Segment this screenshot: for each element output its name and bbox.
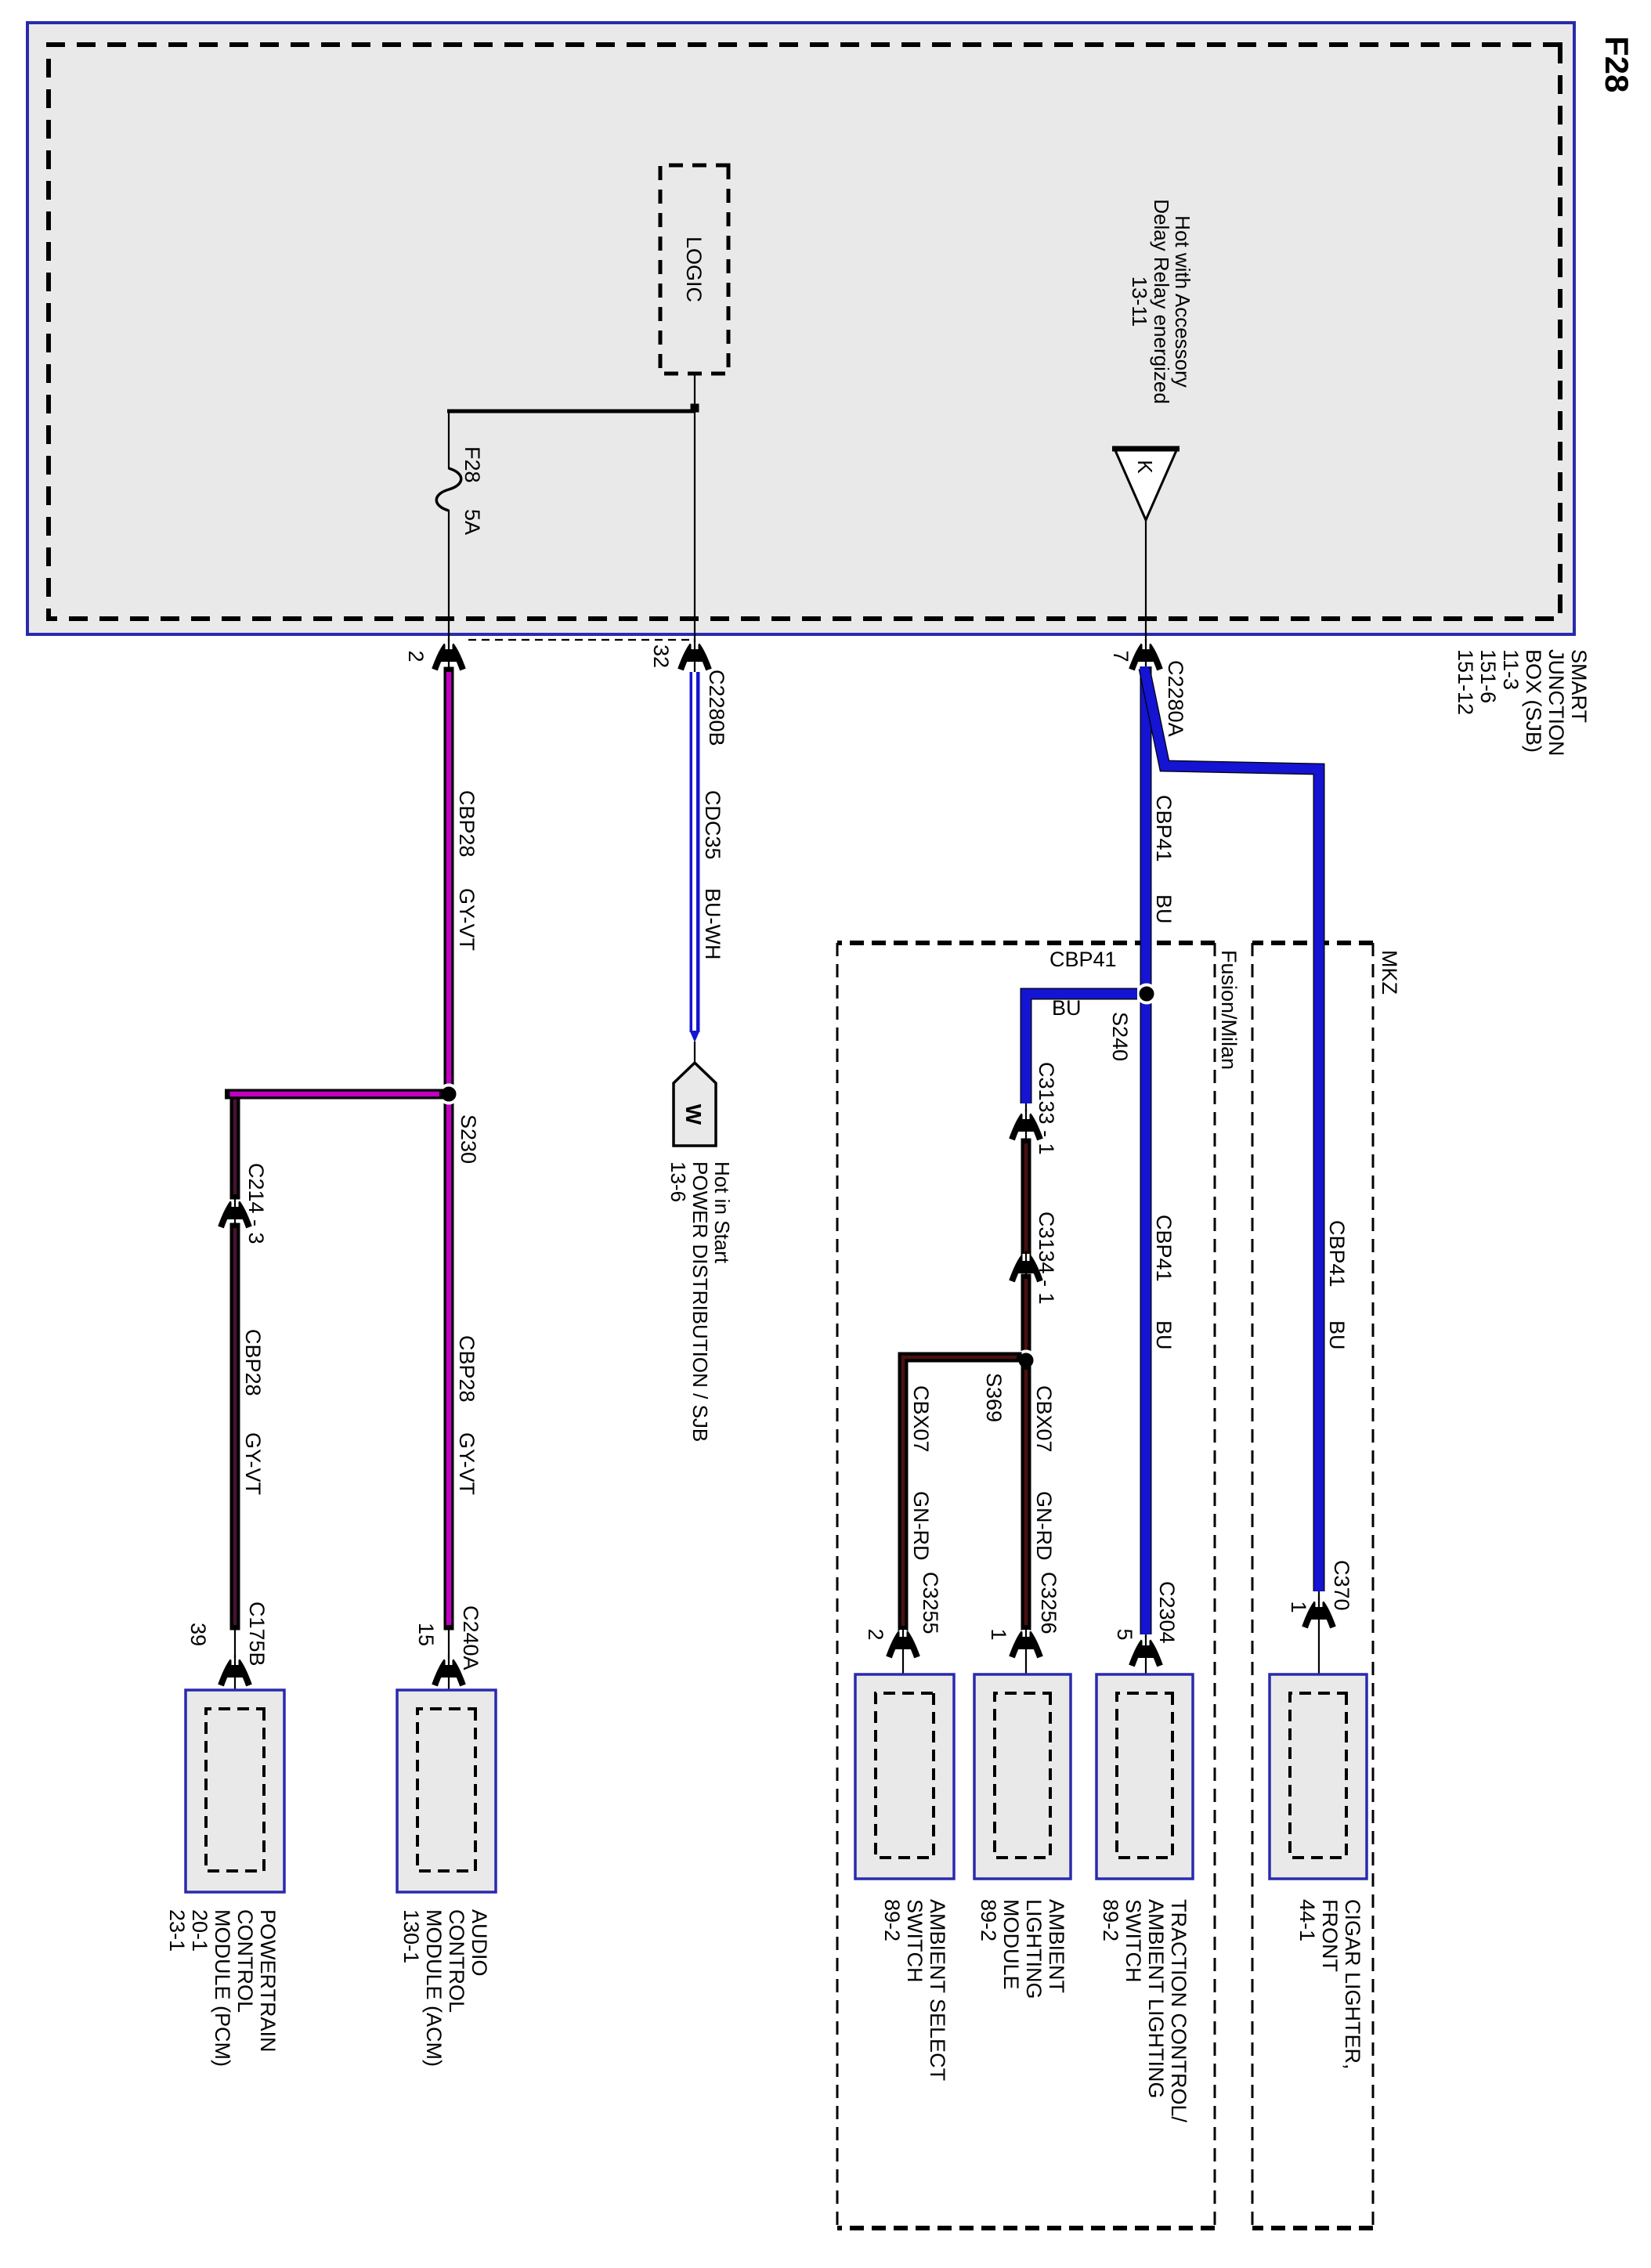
wire CBX07 GN-RD branch S369 to C3255	[903, 1357, 1017, 1626]
wire CDC35 BU-WH	[690, 672, 725, 1064]
svg-text:MODULE: MODULE	[999, 1899, 1023, 1990]
svg-text:AMBIENT SELECT: AMBIENT SELECT	[926, 1899, 949, 2081]
connector C2280B label	[705, 670, 728, 746]
SJB name label	[1454, 649, 1591, 757]
svg-text:39: 39	[186, 1623, 210, 1646]
inline connector C3133-1	[1012, 1062, 1058, 1155]
svg-text:S230: S230	[457, 1114, 480, 1164]
svg-text:C240A: C240A	[459, 1605, 482, 1670]
splice S230	[440, 1085, 481, 1165]
svg-text:TRACTION CONTROL/: TRACTION CONTROL/	[1167, 1899, 1190, 2123]
svg-text:CONTROL: CONTROL	[233, 1909, 257, 2013]
svg-text:AUDIO: AUDIO	[468, 1909, 491, 1977]
svg-text:2: 2	[864, 1628, 887, 1640]
svg-text:C2280A: C2280A	[1164, 660, 1187, 737]
svg-text:C3134 - 1: C3134 - 1	[1035, 1212, 1058, 1305]
wire CBP28 branch S230 down	[230, 1094, 440, 1194]
node junction at logic output	[691, 404, 699, 413]
svg-text:151-12: 151-12	[1454, 649, 1477, 715]
svg-text:11-3: 11-3	[1499, 649, 1523, 690]
svg-text:Delay Relay energized: Delay Relay energized	[1150, 199, 1173, 404]
fuse F28 5A	[436, 446, 484, 535]
svg-text:Hot with Accessory: Hot with Accessory	[1171, 215, 1194, 388]
wire CBP28 GY-VT to C175B	[235, 1228, 265, 1625]
svg-text:CBP28: CBP28	[455, 790, 479, 858]
svg-text:13-6: 13-6	[667, 1161, 690, 1202]
splice S240	[1108, 985, 1156, 1062]
svg-text:SWITCH: SWITCH	[903, 1899, 927, 1982]
svg-text:CBX07: CBX07	[1032, 1385, 1056, 1453]
svg-text:BU: BU	[1052, 996, 1082, 1020]
wire CBX07 GN-RD S369 to C3256	[1026, 1370, 1056, 1625]
svg-text:13-11: 13-11	[1128, 276, 1151, 327]
pin 32 C2280B	[649, 639, 709, 670]
svg-text:BU: BU	[1152, 1320, 1176, 1350]
svg-text:CONTROL: CONTROL	[445, 1909, 468, 2013]
svg-text:CBP28: CBP28	[241, 1329, 265, 1396]
wire CBX07 segment 1	[1021, 1143, 1031, 1253]
wire CBP41 BU branch S240 down	[1026, 948, 1137, 1103]
svg-text:GY-VT: GY-VT	[241, 1432, 265, 1495]
svg-text:44-1: 44-1	[1295, 1899, 1319, 1941]
connector C370 pin 1	[1287, 1560, 1353, 1693]
svg-text:POWER DISTRIBUTION / SJB: POWER DISTRIBUTION / SJB	[688, 1161, 712, 1442]
svg-text:F28: F28	[461, 446, 484, 483]
svg-text:BU: BU	[1325, 1320, 1349, 1350]
connector C2304 pin 5	[1113, 1581, 1179, 1693]
splice S369	[982, 1352, 1035, 1423]
svg-text:Fusion/Milan: Fusion/Milan	[1217, 950, 1241, 1070]
svg-text:LOGIC: LOGIC	[682, 237, 706, 302]
wire CBP41 BU branch to cigar lighter	[1144, 668, 1349, 1591]
note hot in start power distribution	[667, 1161, 734, 1442]
svg-text:2: 2	[404, 650, 428, 662]
svg-text:C3255: C3255	[919, 1572, 942, 1634]
svg-text:7: 7	[1109, 650, 1133, 662]
svg-text:C3256: C3256	[1037, 1572, 1060, 1634]
svg-text:CIGAR LIGHTER,: CIGAR LIGHTER,	[1341, 1899, 1364, 2070]
svg-text:MODULE (PCM): MODULE (PCM)	[211, 1909, 234, 2067]
svg-text:C2280B: C2280B	[705, 670, 728, 746]
svg-text:130-1: 130-1	[399, 1909, 423, 1963]
svg-text:F28: F28	[1599, 36, 1635, 92]
svg-text:K: K	[1133, 460, 1157, 474]
svg-text:S369: S369	[982, 1373, 1006, 1422]
svg-text:1: 1	[1287, 1601, 1310, 1613]
wire CBP28 GY-VT pin2 to S230 to C240A	[449, 672, 479, 1625]
svg-text:GN-RD: GN-RD	[909, 1491, 933, 1561]
wire thick feed to fuse	[447, 410, 695, 414]
pin 2 C2280B	[404, 639, 463, 670]
svg-text:20-1: 20-1	[188, 1909, 211, 1952]
svg-text:CBX07: CBX07	[909, 1385, 933, 1453]
svg-text:AMBIENT LIGHTING: AMBIENT LIGHTING	[1144, 1899, 1168, 2099]
title F28	[1599, 36, 1635, 92]
svg-text:JUNCTION: JUNCTION	[1544, 649, 1568, 757]
off-page connector W power distribution	[674, 1063, 716, 1146]
svg-text:5: 5	[1113, 1628, 1136, 1640]
svg-text:15: 15	[414, 1623, 438, 1646]
connector C3255 pin 2	[864, 1572, 942, 1693]
svg-text:151-6: 151-6	[1476, 649, 1500, 703]
svg-text:5A: 5A	[461, 509, 484, 535]
svg-text:C370: C370	[1330, 1560, 1353, 1611]
ambient select switch box	[855, 1674, 954, 2081]
svg-text:AMBIENT: AMBIENT	[1045, 1899, 1068, 1993]
connector C175B pin 39	[186, 1602, 269, 1709]
connector C3256 pin 1	[987, 1572, 1060, 1693]
note hot with accessory	[1128, 199, 1194, 404]
svg-text:89-2: 89-2	[977, 1899, 1000, 1941]
svg-text:S240: S240	[1108, 1012, 1132, 1061]
svg-text:89-2: 89-2	[880, 1899, 904, 1941]
svg-text:CBP41: CBP41	[1152, 795, 1176, 862]
inline connector C214-3	[221, 1163, 268, 1244]
connector C240A pin 15	[414, 1605, 482, 1709]
svg-text:C214 - 3: C214 - 3	[244, 1163, 268, 1244]
wire relay K to pin 7	[1145, 520, 1147, 666]
svg-text:LIGHTING: LIGHTING	[1022, 1899, 1046, 1999]
svg-text:BOX (SJB): BOX (SJB)	[1522, 649, 1545, 753]
MKZ dashed group box	[1252, 943, 1401, 2228]
svg-text:89-2: 89-2	[1099, 1899, 1122, 1941]
svg-text:SWITCH: SWITCH	[1122, 1899, 1145, 1982]
svg-text:W: W	[681, 1104, 706, 1125]
svg-text:BU: BU	[1152, 894, 1176, 924]
svg-text:CBP41: CBP41	[1049, 948, 1117, 971]
pin 7 C2280A	[1109, 639, 1160, 670]
svg-text:CBP41: CBP41	[1325, 1220, 1349, 1287]
connector C2280A label	[1164, 660, 1187, 737]
wire fuse feed	[448, 411, 450, 672]
svg-text:1: 1	[987, 1628, 1010, 1640]
svg-text:BU-WH: BU-WH	[701, 888, 724, 959]
smart junction box (SJB)	[27, 23, 1574, 634]
relay K symbol	[1112, 449, 1180, 520]
svg-text:Hot in Start: Hot in Start	[710, 1161, 734, 1264]
connector C2280B dashed line	[464, 639, 689, 641]
svg-text:POWERTRAIN: POWERTRAIN	[256, 1909, 280, 2053]
svg-text:MKZ: MKZ	[1378, 950, 1401, 995]
svg-text:32: 32	[649, 645, 673, 668]
wire CBP41 BU main from pin 7	[1146, 666, 1176, 1634]
Fusion/Milan dashed group box	[837, 943, 1241, 2228]
svg-text:CDC35: CDC35	[701, 790, 724, 860]
svg-text:GY-VT: GY-VT	[455, 888, 479, 951]
svg-text:23-1: 23-1	[165, 1909, 189, 1952]
svg-text:CBP28: CBP28	[455, 1335, 479, 1403]
powertrain control module (PCM) box	[165, 1690, 284, 2067]
audio control module (ACM) box	[397, 1690, 496, 2067]
wire logic output	[694, 374, 695, 672]
svg-text:CBP41: CBP41	[1152, 1215, 1176, 1282]
svg-text:GN-RD: GN-RD	[1032, 1491, 1056, 1561]
svg-text:MODULE (ACM): MODULE (ACM)	[422, 1909, 446, 2067]
svg-text:FRONT: FRONT	[1318, 1899, 1342, 1972]
ambient lighting module box	[974, 1674, 1071, 1999]
svg-text:C2304: C2304	[1155, 1581, 1179, 1644]
svg-text:GY-VT: GY-VT	[455, 1432, 479, 1495]
svg-text:C175B: C175B	[245, 1602, 269, 1667]
traction control/ambient lighting switch box	[1096, 1674, 1193, 2123]
logic box	[660, 165, 728, 374]
wire CBX07 segment 2 to S369	[1021, 1279, 1031, 1360]
svg-text:C3133 - 1: C3133 - 1	[1035, 1062, 1058, 1155]
cigar lighter front box	[1270, 1674, 1367, 2070]
inline connector C3134-1	[1012, 1212, 1058, 1305]
svg-text:SMART: SMART	[1567, 649, 1591, 723]
